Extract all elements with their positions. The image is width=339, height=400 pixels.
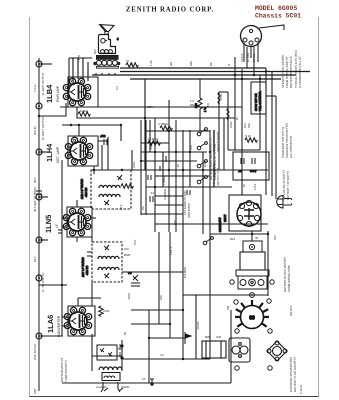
2nd IF transformer xyxy=(80,170,131,209)
wire mesh extra verticals center xyxy=(132,72,276,360)
svg-text:5.1K: 5.1K xyxy=(245,134,251,138)
svg-text:1.04: 1.04 xyxy=(149,60,153,66)
svg-text:B+: B+ xyxy=(235,116,239,120)
junction dots top-left xyxy=(70,124,122,126)
svg-text:22K: 22K xyxy=(159,295,163,300)
speaker plug tube (top right) xyxy=(240,25,284,62)
svg-text:R9: R9 xyxy=(141,206,145,210)
svg-text:DET -AMP: DET -AMP xyxy=(56,146,60,163)
svg-text:R: R xyxy=(227,64,231,66)
svg-text:R12: R12 xyxy=(230,237,236,241)
svg-text:SPK-A: SPK-A xyxy=(240,53,244,62)
svg-text:.05: .05 xyxy=(176,164,180,168)
resistor right of 2nd IF xyxy=(121,184,133,188)
trimmer cap cluster center xyxy=(128,271,140,286)
svg-text:48.5 AVC TO 456KC: 48.5 AVC TO 456KC xyxy=(33,186,37,212)
svg-text:47: 47 xyxy=(126,59,130,63)
wires 1LA6 area xyxy=(39,160,95,344)
vibrator plate xyxy=(236,270,269,276)
center wiring cluster verticals xyxy=(141,100,231,383)
svg-text:2 GANG: 2 GANG xyxy=(96,385,107,389)
electrolytic can cylinder xyxy=(202,341,226,358)
grid cap C on 1LH4 xyxy=(100,134,107,145)
svg-text:4.7MEG: 4.7MEG xyxy=(158,122,168,126)
svg-text:1 MEG: 1 MEG xyxy=(162,176,166,185)
svg-text:220K: 220K xyxy=(132,161,136,168)
svg-text:VOL CONTROL: VOL CONTROL xyxy=(258,91,262,111)
pin stub wires 1LN5 xyxy=(62,200,96,227)
svg-text:1LN5: 1LN5 xyxy=(44,215,53,233)
osc section bottom wires xyxy=(101,379,154,392)
svg-text:C10: C10 xyxy=(133,239,137,245)
svg-text:25V: 25V xyxy=(247,123,251,128)
wire bus over 1LH4 xyxy=(62,58,121,170)
svg-text:B+ BATT OUTPUT: B+ BATT OUTPUT xyxy=(41,116,45,140)
svg-text:.0001: .0001 xyxy=(203,161,207,168)
svg-text:456 KC: 456 KC xyxy=(85,266,89,275)
svg-text:CONVERTER: CONVERTER xyxy=(57,315,61,337)
svg-text:.00025: .00025 xyxy=(196,321,200,330)
svg-text:RECT: RECT xyxy=(223,214,227,222)
svg-text:GR: GR xyxy=(169,62,173,66)
terminal at y278 xyxy=(36,275,42,281)
bottom page border xyxy=(30,396,319,398)
resistor below 1LB4 xyxy=(78,109,90,116)
wires right bottom xyxy=(210,231,268,296)
bus micro labels xyxy=(77,49,293,381)
svg-text:35: 35 xyxy=(255,236,259,240)
svg-text:(1 PERMANENT) ALL AC: (1 PERMANENT) ALL AC xyxy=(298,56,302,88)
svg-text:C14 .1: C14 .1 xyxy=(169,246,173,255)
wires around 1LN5 xyxy=(67,207,92,306)
right top verticals xyxy=(219,43,266,195)
tube 1LA6 xyxy=(46,307,92,337)
svg-text:115V: 115V xyxy=(147,105,153,109)
svg-text:BATTERY RECEPTACLE: BATTERY RECEPTACLE xyxy=(289,56,293,88)
svg-text:1LA6: 1LA6 xyxy=(46,315,55,333)
output transformer lamination xyxy=(93,56,120,69)
svg-text:ZENITH RADIO CORP.: ZENITH RADIO CORP. xyxy=(126,7,214,14)
svg-text:C9: C9 xyxy=(128,271,132,275)
svg-text:AND 456KC: AND 456KC xyxy=(187,203,191,218)
phono flag symbol xyxy=(185,332,191,344)
svg-text:6.8 MEG: 6.8 MEG xyxy=(183,267,187,278)
svg-text:Chassis 5C01: Chassis 5C01 xyxy=(255,13,301,20)
svg-text:PWR AMP: PWR AMP xyxy=(56,85,60,102)
tube 1LN5 xyxy=(44,208,91,235)
svg-text:.02: .02 xyxy=(238,169,242,173)
svg-text:48.5: 48.5 xyxy=(119,204,123,210)
svg-text:COND: COND xyxy=(121,385,129,389)
svg-text:6-18-47: 6-18-47 xyxy=(299,384,303,394)
svg-text:OSC 600 KC: OSC 600 KC xyxy=(33,344,37,360)
svg-text:100: 100 xyxy=(124,247,129,251)
svg-text:0.2: 0.2 xyxy=(115,86,119,90)
resistor mid right xyxy=(245,134,257,142)
svg-text:45V B+: 45V B+ xyxy=(33,125,37,135)
svg-text:MODEL 6G005: MODEL 6G005 xyxy=(255,5,297,12)
terminal at y64 xyxy=(36,61,42,67)
switch contacts column xyxy=(197,128,207,136)
speaker body xyxy=(99,35,120,54)
cap pairs scattered xyxy=(58,166,190,357)
svg-text:TUBE SOCKETS: TUBE SOCKETS xyxy=(64,360,68,382)
svg-text:600V: 600V xyxy=(250,169,257,173)
pin stub wires 1LA6 xyxy=(62,298,101,326)
svg-text:456 KC: 456 KC xyxy=(84,188,88,197)
svg-text:34.2: 34.2 xyxy=(33,256,37,262)
svg-text:47K: 47K xyxy=(189,145,193,150)
rail labels xyxy=(33,72,45,394)
svg-text:85V: 85V xyxy=(173,220,177,225)
svg-text:BL: BL xyxy=(130,62,134,66)
left rail stub wires xyxy=(36,64,63,336)
terminal at y152 xyxy=(36,149,42,155)
dropping resistor R1 top xyxy=(194,79,207,131)
svg-text:88.5: 88.5 xyxy=(33,177,37,183)
svg-text:1.5 A+: 1.5 A+ xyxy=(33,84,37,92)
right page border xyxy=(318,17,320,397)
can terminals xyxy=(235,329,239,333)
svg-text:56: 56 xyxy=(123,331,127,335)
small resistor mid right column xyxy=(218,92,229,120)
svg-text:BATTERY 7.06 WATTS: BATTERY 7.06 WATTS xyxy=(286,171,290,200)
svg-text:ANT: ANT xyxy=(33,388,37,394)
vibrator socket xyxy=(230,276,274,289)
terminal at y336 xyxy=(36,333,42,339)
svg-text:1LB4: 1LB4 xyxy=(45,84,54,103)
svg-text:.05: .05 xyxy=(242,184,246,188)
svg-text:.0001: .0001 xyxy=(127,293,131,300)
center resistors and caps xyxy=(148,122,191,218)
svg-text:60: 60 xyxy=(249,316,255,322)
wires around 1LB4 xyxy=(39,103,242,118)
rectifier tube 117Z6G/GT xyxy=(218,200,261,232)
wire mesh extra horizontals xyxy=(96,73,276,295)
center horizontals xyxy=(62,152,268,383)
speaker socket (4 lug) xyxy=(267,341,287,361)
svg-text:L5: L5 xyxy=(142,377,146,381)
svg-text:8MF: 8MF xyxy=(205,335,211,339)
can base square xyxy=(229,338,250,362)
box around 1LH4 xyxy=(68,124,108,174)
vibrator top cap xyxy=(243,241,262,252)
svg-text:MMF: MMF xyxy=(124,253,131,257)
svg-text:600: 600 xyxy=(93,49,97,54)
svg-text:.005: .005 xyxy=(149,144,153,150)
1st IF transformer xyxy=(81,242,122,282)
svg-text:25Z: 25Z xyxy=(273,235,277,240)
svg-text:BK: BK xyxy=(209,62,213,66)
svg-text:C30: C30 xyxy=(216,335,222,339)
svg-text:A-C OPERATION: A-C OPERATION xyxy=(289,136,293,158)
box around 1LB4 xyxy=(68,77,98,107)
cap box right center xyxy=(233,152,269,180)
extra component labels scatter xyxy=(123,93,246,335)
svg-text:BATTERY PLUG SOCKETS: BATTERY PLUG SOCKETS xyxy=(293,357,297,392)
svg-text:FROM WIRING SIDE: FROM WIRING SIDE xyxy=(287,265,291,292)
AC plug xyxy=(277,196,292,209)
svg-text:I-F: I-F xyxy=(55,224,59,228)
volume control box xyxy=(251,82,266,114)
svg-text:.002: .002 xyxy=(100,134,106,138)
svg-text:ON-OFF: ON-OFF xyxy=(289,305,293,316)
47ohm resistor on bus xyxy=(126,59,138,67)
terminal at y240 xyxy=(36,237,42,243)
oscillator coil box xyxy=(92,334,123,381)
svg-text:117V: 117V xyxy=(253,184,257,190)
svg-text:.01: .01 xyxy=(150,191,154,195)
svg-text:820: 820 xyxy=(194,103,198,108)
coil circles xyxy=(97,60,102,65)
svg-text:C2: C2 xyxy=(160,353,164,357)
speaker horn xyxy=(100,25,115,35)
dial with ticks xyxy=(235,300,269,329)
svg-text:470K: 470K xyxy=(103,309,110,313)
svg-text:PM: PM xyxy=(226,305,230,310)
tube 1LH4 xyxy=(45,137,93,164)
junction circle below vibrator xyxy=(250,293,255,298)
rectifier box xyxy=(229,195,261,231)
svg-text:COMMON NEG WITH VTVM: COMMON NEG WITH VTVM xyxy=(213,143,217,180)
tube 1LB4 xyxy=(45,57,91,106)
svg-text:1 W: 1 W xyxy=(203,107,207,112)
svg-text:117Z6G/GT: 117Z6G/GT xyxy=(218,217,222,232)
svg-text:1MEG: 1MEG xyxy=(80,109,88,113)
svg-text:77V: 77V xyxy=(77,55,81,60)
top bus wires xyxy=(69,58,310,170)
vibrator body xyxy=(240,252,265,270)
small terminals near dial xyxy=(234,300,238,304)
antenna/battery rail xyxy=(38,58,40,391)
svg-text:A+ TO OSC KC: A+ TO OSC KC xyxy=(41,272,45,292)
left page border xyxy=(29,17,31,397)
svg-text:470K: 470K xyxy=(229,121,233,128)
terminal at y197 xyxy=(36,194,42,200)
svg-text:84V: 84V xyxy=(189,61,193,66)
terminal at y106 xyxy=(36,103,42,109)
470K resistor right of 1LA6 xyxy=(99,306,110,316)
svg-text:3.3 MEG: 3.3 MEG xyxy=(163,189,167,200)
